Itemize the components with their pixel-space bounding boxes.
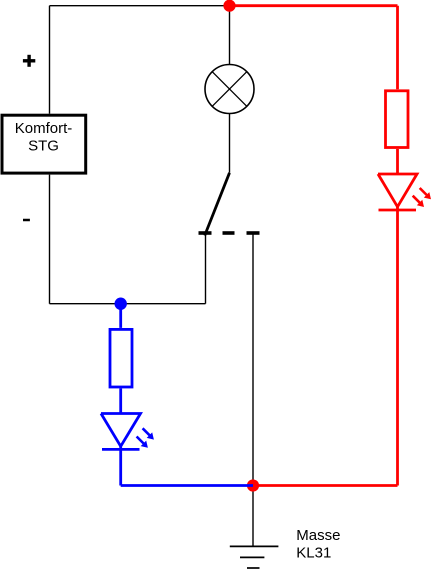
svg-text:KL31: KL31 [296,545,331,562]
svg-text:Masse: Masse [296,527,340,544]
svg-text:Komfort-: Komfort- [15,120,73,137]
svg-text:STG: STG [28,137,59,154]
